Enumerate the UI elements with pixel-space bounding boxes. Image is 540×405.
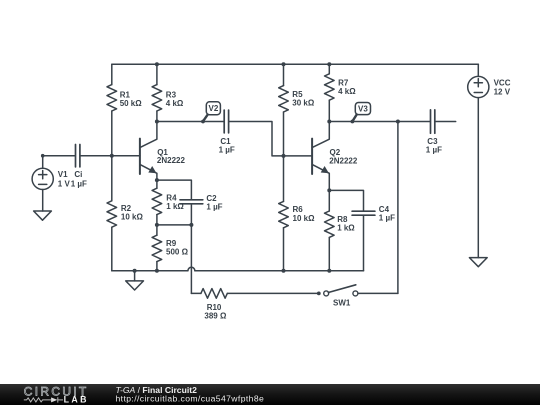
junction V1 top	[41, 154, 45, 158]
capacitor C3	[431, 110, 435, 133]
wire top supply rail	[112, 63, 479, 65]
junction R1-R2 base divider node	[110, 154, 114, 158]
transistor Q1	[140, 122, 157, 181]
svg-text:1 µF: 1 µF	[71, 179, 87, 188]
capacitor Ci	[76, 145, 80, 167]
svg-text:1 µF: 1 µF	[379, 213, 395, 222]
svg-text:12 V: 12 V	[494, 87, 511, 96]
wire SW1 up to V3 node	[397, 122, 399, 294]
wire V3 node to C3	[329, 121, 429, 123]
junction V2 flag tail	[201, 120, 205, 124]
resistor R7	[325, 64, 335, 121]
voltage source VCC	[468, 64, 489, 257]
svg-text:1 kΩ: 1 kΩ	[337, 224, 355, 233]
arrow Q2 emitter	[321, 166, 329, 173]
junction Q2 emitter node	[327, 188, 331, 192]
svg-text:V2: V2	[209, 104, 219, 113]
resistor R1	[107, 64, 117, 156]
junction SW1 left terminal	[317, 292, 321, 296]
ground middle	[126, 271, 144, 290]
svg-text:Ci: Ci	[74, 170, 82, 179]
wire V2 node to C1	[157, 121, 224, 123]
junction C2 bottom node	[189, 223, 193, 227]
wire C4 bottom lead	[363, 216, 365, 271]
resistor R9	[152, 225, 162, 271]
wire C1 to Q2 base	[229, 122, 312, 156]
junction ground tap bottom rail	[133, 269, 137, 273]
svg-text:1 µF: 1 µF	[206, 203, 222, 212]
capacitor C2	[180, 200, 203, 204]
resistor R5	[279, 64, 289, 156]
capacitor C1	[224, 110, 228, 133]
junction R9 bottom rail	[155, 269, 159, 273]
resistor R10	[191, 289, 318, 299]
resistor R2	[107, 156, 117, 271]
svg-text:10 kΩ: 10 kΩ	[121, 213, 144, 222]
junction R3 top rail	[155, 62, 159, 66]
junction R5-R6 base divider node	[282, 154, 286, 158]
ground under V1	[34, 211, 52, 220]
svg-text:2N2222: 2N2222	[157, 156, 186, 165]
voltage source V1	[32, 156, 53, 211]
switch SW1	[324, 285, 398, 296]
logo zigzag and diode	[24, 397, 63, 402]
junction Q1 collector node	[155, 120, 159, 124]
junction R8 bottom rail	[327, 269, 331, 273]
svg-text:1 µF: 1 µF	[219, 145, 235, 154]
wire Q2 emitter to C4 branch	[329, 190, 363, 210]
capacitor C4	[352, 211, 375, 215]
node flag V3	[352, 103, 370, 122]
junction R6 bottom rail	[282, 269, 286, 273]
node flag V2	[203, 102, 220, 122]
footer black bar	[0, 384, 540, 405]
svg-text:4 kΩ: 4 kΩ	[338, 87, 356, 96]
junction R7 top rail	[327, 62, 331, 66]
svg-text:SW1: SW1	[333, 299, 351, 308]
svg-text:http://circuitlab.com/cua547wf: http://circuitlab.com/cua547wfpth8e	[116, 393, 265, 403]
svg-text:4 kΩ: 4 kΩ	[166, 99, 184, 108]
wire bottom ground rail	[112, 267, 364, 271]
resistor R3	[152, 64, 162, 121]
wire C2 bottom to R4/R9 node	[157, 205, 192, 225]
svg-text:V3: V3	[358, 105, 368, 114]
wire C2 node down to R10 (crosses bottom wire with hop)	[190, 225, 192, 294]
svg-text:2N2222: 2N2222	[329, 156, 358, 165]
resistor R8	[325, 190, 335, 270]
ground under VCC	[469, 258, 487, 267]
svg-text:1 kΩ: 1 kΩ	[166, 202, 184, 211]
transistor Q2	[312, 122, 329, 191]
wire input from V1 to Q1 base	[43, 155, 140, 157]
svg-text:1 µF: 1 µF	[426, 145, 442, 154]
svg-text:30 kΩ: 30 kΩ	[292, 99, 315, 108]
junction Q1 emitter node	[155, 178, 159, 182]
svg-text:389 Ω: 389 Ω	[204, 311, 227, 320]
arrow Q1 emitter	[148, 166, 156, 173]
svg-text:50 kΩ: 50 kΩ	[120, 99, 143, 108]
junction V3 flag tail	[351, 120, 355, 124]
svg-text:1 V: 1 V	[58, 179, 71, 188]
svg-text:500 Ω: 500 Ω	[166, 248, 189, 257]
junction V3 wire to SW1 branch	[396, 120, 400, 124]
wire C3 output open end	[436, 121, 456, 123]
junction R5 top rail	[282, 62, 286, 66]
junction R4-R9 node	[155, 223, 159, 227]
svg-text:10 kΩ: 10 kΩ	[293, 214, 316, 223]
logo diode triangle	[51, 397, 57, 402]
junction Q2 collector node	[327, 120, 331, 124]
svg-text:LAB: LAB	[64, 394, 89, 404]
svg-text:V1: V1	[58, 170, 68, 179]
wire Q1 emitter to C2 branch	[157, 180, 192, 199]
resistor R4	[152, 180, 162, 225]
resistor R6	[279, 156, 289, 271]
